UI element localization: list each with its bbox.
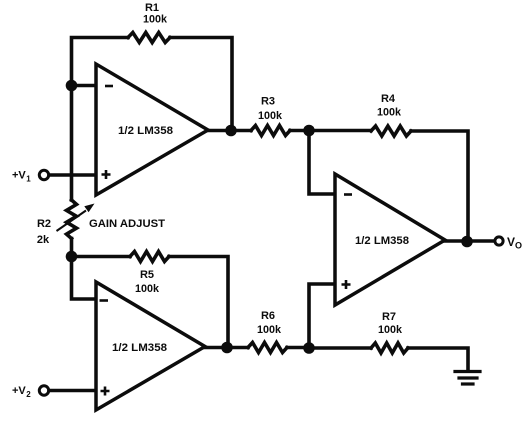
svg-text:2k: 2k xyxy=(37,234,50,246)
svg-text:100k: 100k xyxy=(143,14,168,26)
svg-text:100k: 100k xyxy=(257,324,282,336)
svg-text:1/2 LM358: 1/2 LM358 xyxy=(355,235,409,247)
svg-text:100k: 100k xyxy=(378,324,403,336)
svg-text:1/2 LM358: 1/2 LM358 xyxy=(118,125,173,137)
svg-text:100k: 100k xyxy=(258,110,283,122)
svg-text:100k: 100k xyxy=(135,283,160,295)
svg-text:100k: 100k xyxy=(377,107,402,119)
svg-text:GAIN ADJUST: GAIN ADJUST xyxy=(89,218,165,230)
svg-text:R3: R3 xyxy=(261,96,275,108)
svg-text:R5: R5 xyxy=(140,269,154,281)
svg-text:R1: R1 xyxy=(145,2,159,14)
svg-text:R7: R7 xyxy=(382,311,396,323)
svg-text:R4: R4 xyxy=(381,93,396,105)
svg-text:R2: R2 xyxy=(37,218,51,230)
svg-text:1/2 LM358: 1/2 LM358 xyxy=(112,342,167,354)
svg-text:R6: R6 xyxy=(261,310,275,322)
